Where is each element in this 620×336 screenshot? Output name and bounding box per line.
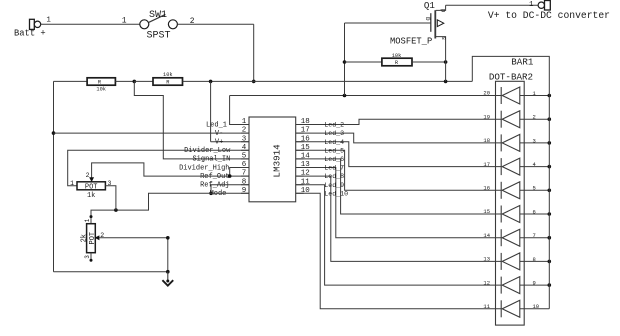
POT2 pin3 stub [90,253,93,262]
svg-text:g: g [424,17,431,21]
svg-text:10k: 10k [163,72,173,78]
pin 7 number label right [533,232,536,239]
node Signal_IN label [192,156,230,164]
wire Ref_Out net [92,163,249,180]
junction gate resistor left [343,60,347,64]
pin 10 number label [301,187,311,195]
pin 11 stub of U1 [296,184,304,186]
node Led_1 label [206,121,227,129]
pin 3 label of POT1 [108,180,112,187]
node Led_10 label [324,190,348,197]
wire R3 right lead [412,61,446,63]
label POT2 value 2k [80,234,88,242]
svg-text:Led_10: Led_10 [324,190,348,197]
LED D5 triangle [502,182,520,199]
pin 3 number label right [533,137,536,144]
junction anode bus 1 [548,94,552,98]
pin 12 number label [483,279,490,286]
LED D4 triangle [502,158,520,175]
pin 6 number label right [533,208,536,215]
pin 7 stub of U1 [241,175,249,177]
LED D9 triangle [502,277,520,294]
pin 12 stub of U1 [296,175,304,177]
svg-text:SW1: SW1 [149,10,167,21]
wire Led_3 net [296,133,502,143]
svg-text:3: 3 [84,255,91,259]
wire V+ riser [211,81,249,141]
pin 8 number label [242,178,247,186]
LED D5 cathode bar [500,182,502,199]
wire POT1 pin3 [105,186,116,210]
POT1 wiper arrow [90,178,94,182]
svg-text:1: 1 [122,17,127,26]
node Led_4 label [324,139,344,146]
svg-text:Batt +: Batt + [14,28,46,38]
wire anode bus [472,56,549,308]
resistor R3 [382,58,412,66]
pin 12 number label [301,170,310,178]
connector J2 V+ out [538,1,550,11]
pin 9 number label [242,187,247,195]
junction V+ tap [209,80,213,84]
wire Led_1 to gate rail [230,96,502,125]
node V- label [215,130,223,138]
pin 2 label of POT2 [100,232,104,239]
label Batt + [14,28,46,38]
svg-text:Divider_Low: Divider_Low [184,147,231,155]
pin 8 number label right [533,256,536,263]
svg-text:19: 19 [483,113,490,120]
label POT2 name [89,232,97,245]
wire Led_10 net [296,193,502,308]
pin 14 stub of U1 [296,158,304,160]
wire R1 left lead [54,80,88,82]
junction POT1 pin3 on rail [114,208,118,212]
wire anode pin 1 [520,95,550,97]
pin 2 number label right [533,114,536,121]
wire POT2 wiper to ground [99,238,168,272]
svg-text:15: 15 [483,208,490,215]
svg-text:1k: 1k [87,192,95,200]
pin 4 number label right [533,161,537,168]
svg-text:14: 14 [483,232,490,239]
wire V- to ground column [54,132,250,134]
junction anode bus 6 [548,212,552,216]
svg-text:Signal_IN: Signal_IN [192,156,230,164]
pin 10 number label right [533,303,540,310]
pin 15 number label [301,144,311,152]
LED D2 triangle [502,111,520,128]
label POT1 name [85,184,98,192]
pin 4 stub of U1 [241,149,249,151]
pin 13 stub of U1 [296,167,304,169]
label DOT-BAR2 [489,72,533,83]
label SPST [147,30,171,41]
pin 11 number label [483,303,490,310]
wire anode pin 6 [520,213,550,215]
pin 3 number label [242,135,247,143]
LED D3 cathode bar [500,134,502,151]
svg-text:V+: V+ [215,139,223,147]
svg-text:Divider_High: Divider_High [179,164,229,172]
pin 11 number label [301,178,311,186]
wire anode pin 9 [520,284,550,286]
svg-text:13: 13 [483,256,490,263]
wire Ref_Adj jog [211,185,249,194]
wire ground column [54,81,168,271]
wire Led_9 net [296,185,502,285]
svg-text:Led_2: Led_2 [324,122,344,129]
pin 20 number label [483,90,490,97]
wire Led_8 net [296,176,502,261]
svg-text:V+ to DC-DC converter: V+ to DC-DC converter [488,10,610,21]
node Led_2 label [324,122,344,129]
LED D6 triangle [502,206,520,223]
svg-text:2: 2 [190,17,195,26]
LED D8 triangle [502,253,520,270]
LED D9 cathode bar [500,277,502,294]
junction MOSFET source on +rail [444,80,448,84]
node Led_3 label [324,130,344,137]
svg-text:d: d [440,8,447,12]
svg-text:Led_4: Led_4 [324,139,344,146]
transistor Q1 drain lead [436,5,446,10]
svg-text:17: 17 [483,161,490,168]
svg-text:12: 12 [483,279,490,286]
node Divider_Low label [184,147,231,155]
pin label d [440,8,447,12]
svg-text:1: 1 [242,118,247,126]
wire Led_4 net [296,142,502,167]
pin 19 number label [483,113,490,120]
junction wiper corner [166,236,170,240]
LED D1 triangle [502,87,520,104]
svg-text:3: 3 [242,135,247,143]
label R2 value 10k [163,72,173,78]
label R2 name R [166,80,170,86]
svg-text:16: 16 [483,185,490,192]
pin 2 label of SW1 [190,17,195,26]
svg-text:1: 1 [529,1,534,9]
wire Batt+ to SW1 [41,23,140,25]
svg-text:Led_8: Led_8 [324,173,344,180]
label Q1 [424,0,436,11]
pin 6 stub of U1 [241,167,249,169]
pin 13 number label [483,256,490,263]
wire anode pin 8 [520,260,550,262]
pin 5 stub of U1 [241,158,249,160]
svg-text:Ref_Out: Ref_Out [200,173,229,181]
node Led_5 label [324,147,344,154]
wire Led_7 net [296,168,502,238]
wire Divider_Low to POT1 [68,150,249,186]
junction anode bus 5 [548,189,552,193]
junction R3 at source [444,60,448,64]
label BAR1 [511,56,534,67]
label SW1 [149,10,167,21]
svg-text:SPST: SPST [147,30,171,41]
node Divider_High label [179,164,229,172]
junction anode bus 2 [548,117,552,121]
pin 2 number label [242,127,247,135]
LED D2 cathode bar [500,111,502,128]
svg-text:POT: POT [85,184,98,192]
svg-text:11: 11 [483,303,490,310]
svg-text:1: 1 [46,17,51,25]
junction anode bus 9 [548,283,552,287]
junction anode bus 7 [548,236,552,240]
pin 8 stub of U1 [241,184,249,186]
label LM3914 [272,144,283,178]
wire POT2 pin1 stub [90,215,93,224]
pin 15 stub of U1 [296,149,304,151]
svg-text:Led_5: Led_5 [324,147,344,154]
svg-text:Led_9: Led_9 [324,182,344,189]
pin 16 number label [301,135,311,143]
junction V- on ground column [52,131,56,135]
POT2 wiper arrow [96,236,100,240]
wire anode pin 3 [520,142,550,144]
pin 1 label of POT2 [84,218,91,222]
svg-text:Led_3: Led_3 [324,130,344,137]
pin 14 number label [483,232,490,239]
junction Divider_High at Ref_Out [228,174,232,178]
wire +rail [183,80,473,82]
pin 18 stub of U1 [296,124,304,126]
pin 7 number label [242,170,247,178]
resistor R2 [153,78,183,85]
wire anode pin 4 [520,166,550,168]
junction Ref_Adj at Mode [209,192,213,196]
wire Divider_High jog [230,168,249,177]
node Mode label [210,190,227,198]
transistor Q1 source lead [436,37,446,82]
pin 1 label of POT1 [70,180,74,187]
node Ref_Adj label [200,182,229,190]
wire R1 to divider node [115,80,134,82]
node Led_7 label [324,165,344,172]
pin 9 stub of U1 [241,192,249,194]
junction divider midpoint [133,80,137,84]
svg-text:Led_6: Led_6 [324,156,344,163]
svg-text:Led_7: Led_7 [324,165,344,172]
potentiometer POT2 2k body [87,224,96,253]
svg-text:10k: 10k [392,53,402,59]
wire R3 left lead [345,61,382,63]
pin 5 number label right [533,185,536,192]
svg-text:18: 18 [483,137,490,144]
svg-text:BAR1: BAR1 [511,56,534,67]
pin 4 number label [242,144,247,152]
transistor Q1 arrow [437,20,444,27]
pin 5 number label [242,153,247,161]
pin 13 number label [301,161,311,169]
label V+ to DC-DC converter [488,10,610,21]
node Led_9 label [324,182,344,189]
svg-text:MOSFET_P: MOSFET_P [390,37,432,47]
pin 15 number label [483,208,490,215]
node Led_6 label [324,156,344,163]
pin 1 number label [242,118,247,126]
LED D8 cathode bar [500,253,502,270]
node Ref_Out label [200,173,229,181]
LED D10 cathode bar [500,300,502,317]
label MOSFET_P [390,37,432,47]
label R1 value 10k [96,87,106,93]
wire anode pin 2 [520,118,550,120]
wire anode pin 5 [520,189,550,191]
LED D1 cathode bar [500,87,502,104]
node Led_8 label [324,173,344,180]
svg-text:2: 2 [86,172,90,179]
junction SW1 drop on +rail [252,80,256,84]
svg-text:Led_1: Led_1 [206,121,227,129]
transistor Q1 channel bar [434,10,436,38]
junction ground node [166,270,170,274]
LED D3 triangle [502,134,520,151]
label R3 value 10k [392,53,402,59]
svg-text:s: s [440,36,447,40]
pin 2 label of POT1 [86,172,90,179]
switch SW1 SPST [140,14,178,28]
svg-text:Q1: Q1 [424,0,436,11]
pin 17 stub of U1 [296,132,304,134]
LED D4 cathode bar [500,158,502,175]
pin 17 number label [301,127,310,135]
svg-text:V-: V- [215,130,223,138]
wire Led_6 net [296,159,502,214]
pin 18 number label [301,118,310,126]
junction anode bus 3 [548,141,552,145]
wire Led_2 net [296,119,502,124]
wire SW1 pin2 to +rail [177,24,253,81]
ground [162,272,173,286]
label R3 name R [395,60,399,66]
pin 1 number label right [533,90,537,97]
junction anode bus 4 [548,165,552,169]
connector J1 Batt+ [30,19,41,29]
svg-text:1: 1 [70,180,74,187]
pin 3 stub of U1 [241,141,249,143]
pin 9 number label right [533,280,536,287]
resistor R1 [87,78,115,85]
transistor Q1 MOSFET_P gate bar [430,13,432,32]
wire divider node to R2 [134,80,153,82]
potentiometer POT1 1k body [77,182,105,190]
pin 14 number label [301,153,311,161]
pin label s [440,36,447,40]
wire MOSFET gate net [345,23,431,96]
wire anode pin 7 [520,237,550,239]
junction anode bus 8 [548,260,552,264]
svg-text:10k: 10k [96,87,106,93]
pin 16 number label [483,185,490,192]
op-amp U1 LM3914 body [249,117,296,202]
pin 10 stub of U1 [296,192,304,194]
svg-text:LM3914: LM3914 [272,144,283,178]
wire anode pin 10 [520,308,550,310]
svg-text:Ref_Adj: Ref_Adj [200,182,229,190]
pin 1 stub of U1 [241,124,249,126]
svg-text:2k: 2k [80,234,88,242]
pin 1 label of J2 [529,1,534,9]
pin 2 stub of U1 [241,132,249,134]
pin 18 number label [483,137,490,144]
label R1 name R [98,80,102,86]
wire divider to Signal_IN [134,81,249,158]
node V+ label [215,139,223,147]
LED D10 triangle [502,300,520,317]
LED D7 triangle [502,229,520,246]
pin 3 label of POT2 [84,255,91,259]
svg-text:5: 5 [242,153,247,161]
svg-text:20: 20 [483,90,490,97]
pin label g [424,17,431,21]
wire Mode to POT rail [91,193,249,216]
svg-text:1: 1 [84,218,91,222]
wire drain to V+ connector [446,4,538,6]
LED D7 cathode bar [500,229,502,246]
pin 1 label of J1 [46,17,51,25]
pin 16 stub of U1 [296,141,304,143]
wire Led_5 net [296,150,502,190]
label POT1 value 1k [87,192,95,200]
junction gate rail [343,94,347,98]
pin 6 number label [242,161,247,169]
pin 1 label of SW1 [122,17,127,26]
svg-text:2: 2 [242,127,247,135]
pin 17 number label [483,161,490,168]
LED array BAR1 body [496,81,525,325]
LED D6 cathode bar [500,206,502,223]
